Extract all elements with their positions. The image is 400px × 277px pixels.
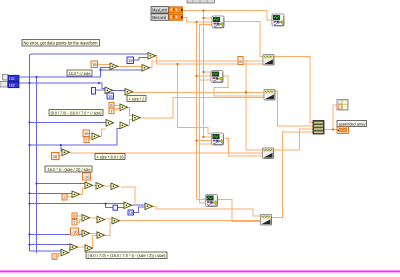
constant: orange -16 row L <box>71 228 79 235</box>
svg-text:16: 16 <box>53 154 58 159</box>
constant: orange 7 row K <box>72 220 77 226</box>
op-amp: divide J2 <box>145 203 153 210</box>
label: No error, get data points for the waveform <box>22 40 100 47</box>
node: junction dots orange <box>176 9 334 141</box>
svg-text:16.0 * i / size: 16.0 * i / size <box>69 71 92 76</box>
svg-text:MaxLimit: MaxLimit <box>152 8 168 13</box>
wire: orange build array output to appended array terminal <box>324 129 337 131</box>
wire: orange multiply to divide B <box>117 66 142 68</box>
constant: orange 8 near I3 <box>238 57 243 65</box>
svg-text:-16.0 * (i - (size / 2)) / siz: -16.0 * (i - (size / 2)) / size <box>47 167 92 172</box>
op-amp: divide T_b <box>120 122 128 129</box>
constant: blue 16 cluster B2 <box>107 93 114 99</box>
constant: orange 2 row N <box>52 254 57 259</box>
op-amp: multiply L1 <box>82 230 90 237</box>
wire: blue const 16 elbow into J2 <box>134 207 146 212</box>
op-amp: ramp VI icon I9 <box>260 214 271 225</box>
wire: blue T2 horizontal run y=84 into cluster B2 <box>19 83 105 89</box>
constant: blue 16 row J <box>128 210 134 215</box>
wire: orange H chain links <box>93 185 111 188</box>
wire: orange const 16 to multiply <box>97 64 110 66</box>
op-amp: compare G <box>62 149 70 156</box>
svg-text:16: 16 <box>108 94 113 99</box>
constant: orange 16 cluster F <box>83 130 90 137</box>
op-amp: add T_b2 <box>125 89 133 96</box>
op-amp: divide L2 <box>97 232 105 239</box>
wire: orange T_c long output via x=173 into I4 third input <box>140 97 263 118</box>
wire: magenta separator line at bottom <box>0 270 400 272</box>
wire: blue link T_a2 to T_b2 <box>112 89 125 91</box>
constant: orange 7 cluster C <box>109 108 114 114</box>
svg-text:I32: I32 <box>9 84 14 88</box>
wire: orange long run y=92.5 from T_b2 to x=246 <box>132 91 263 93</box>
op-amp: subtract N <box>61 249 69 256</box>
wire: orange consts 16 7 into F <box>89 134 92 140</box>
svg-text:16: 16 <box>92 62 97 67</box>
svg-text:16: 16 <box>128 58 133 63</box>
terminal: appended array DBL indicator <box>337 127 349 134</box>
constant: orange 8 cluster C <box>109 103 114 109</box>
op-amp: divide M2 <box>85 245 93 252</box>
op-amp: multiply K2 <box>97 216 105 223</box>
wire: blue branch y=122.5 to multiply T_a <box>30 121 107 123</box>
wire: orange vertical Va x=203.5 feeding scope icons first inputs <box>204 11 213 138</box>
wire: orange I10 output down x=250 into I4 first input <box>214 76 264 96</box>
wire: blue main vertical bus from node at (30,54) down to y=250 with top run to divide triangle A <box>30 54 149 251</box>
op-amp: ramp VI icon I3 <box>263 54 274 65</box>
svg-text:-16: -16 <box>84 175 91 180</box>
wire: orange const 2 into I <box>67 196 72 198</box>
wire: orange N output stub <box>56 254 61 257</box>
wire: orange K chain <box>77 216 112 223</box>
op-amp: scope VI icon I8 <box>205 194 217 206</box>
op-amp: scope VI icon I10 <box>211 70 223 82</box>
wire: orange J2 output long y=209 into I9 first input <box>151 206 260 215</box>
op-amp: divide triangle B <box>142 65 150 72</box>
wire: orange vertical Vc x=207 feeding scope icons third inputs <box>200 25 213 203</box>
wire: orange T_b output elbow up into T_c <box>127 120 133 126</box>
wire: orange vertical Vb x=196.5 feeding scope icons second inputs <box>197 22 212 200</box>
svg-text:I32: I32 <box>9 77 14 81</box>
U2: array constant <box>337 100 348 111</box>
wire: orange branch from (177.5,64) down into I5 fourth input <box>178 64 212 134</box>
wire: orange triangle A output long run y=64 to I3 <box>154 56 263 65</box>
label: (-8.0 / 7.0) + (16.0 / 7.0 * (i - (size / 2)) / size) <box>86 252 167 259</box>
control: partial gray box at top edge <box>187 0 215 3</box>
op-amp: multiply T_a2 <box>105 87 113 94</box>
wire: blue branch y=234.3 elbow into M1 <box>30 233 83 235</box>
svg-text:-16: -16 <box>72 230 79 235</box>
wire: orange I output up into H1 <box>80 188 85 194</box>
label: MinLimit <box>151 14 169 20</box>
svg-text:16: 16 <box>129 210 134 215</box>
wire: orange I5 output down x=228.5 into I7 second input <box>225 139 262 156</box>
op-amp: multiply J1 <box>124 202 132 209</box>
U1: build array node <box>313 121 324 135</box>
wire: orange consts 8 7 into divide <box>114 106 120 111</box>
label: (8.0 / 7.0) - (16.0 / 7.0 * i / size) <box>49 110 103 116</box>
wire: orange array constant elbow into build array top <box>333 105 337 130</box>
wire: blue long branch y=203.8 to multiply J1 <box>30 204 125 208</box>
op-amp: multiply M1 <box>70 244 78 251</box>
label: -16.0 * (i - (size / 2)) / size <box>45 166 92 172</box>
wire: orange divide (120,104) elbow down into T_c first input <box>127 108 133 116</box>
op-amp: ramp VI icon I4 <box>264 89 275 100</box>
constant: orange 8 row K <box>72 213 77 219</box>
op-amp: scope VI icon I2 <box>272 14 284 26</box>
op-amp: divide triangle A <box>148 53 156 60</box>
op-amp: scope VI icon I1 <box>212 16 224 28</box>
wire: blue branch y=152 to compare G <box>30 129 121 151</box>
label: 16.0 * i / size <box>67 70 92 76</box>
terminal: MinLimit DBL control <box>169 14 183 20</box>
svg-text:appended array: appended array <box>339 121 367 126</box>
terminal: left I32 control T1 with tiny label <box>3 75 20 82</box>
op-amp: subtract I <box>72 191 80 198</box>
wire: orange M chain <box>68 236 97 253</box>
label: appended array <box>337 121 367 127</box>
wire: orange 8 const to I3 <box>243 60 263 62</box>
wire: orange compare G long output y=155.5 into I7 third input <box>70 152 262 154</box>
svg-text:< size * 8.0 / 16: < size * 8.0 / 16 <box>97 154 125 159</box>
wire: orange I7 output up x=299.5 to build array <box>274 129 313 150</box>
op-amp: ramp VI icon I7 <box>262 148 273 159</box>
wire: blue J1 to J2 <box>131 204 146 206</box>
svg-text:16: 16 <box>84 131 89 136</box>
op-amp: divide F <box>92 133 100 140</box>
svg-text:MinLimit: MinLimit <box>152 15 167 20</box>
op-amp: scope VI icon I5 <box>211 133 223 145</box>
wire: blue branch y=193.3 to subtract I <box>30 192 74 194</box>
terminal: left I32 control T2 with tiny label <box>0 82 19 88</box>
svg-text:(8.0 / 7.0) - (16.0 / 7.0 * i: (8.0 / 7.0) - (16.0 / 7.0 * i / size) <box>51 110 103 115</box>
constant: orange 16 near A <box>91 61 98 68</box>
wire: blue vertical x=40 from triangle B down to row H <box>37 70 143 253</box>
label: + size / 2 <box>127 96 146 102</box>
wire: blue T1 horizontal run y=78.5 then up into multiply <box>19 68 110 78</box>
wire: blue narrow const to T_a2 <box>95 89 105 91</box>
terminal: MaxLimit DBL control <box>169 7 183 13</box>
wire: orange I1 output to ramp I3 <box>224 22 263 57</box>
constant: blue 16 near A <box>127 57 134 64</box>
wire: orange I4 output down x=277.5 to build array <box>275 91 313 126</box>
op-amp: divide 8/7 <box>120 104 128 111</box>
wire: orange triangle B output long run y=60.8 down x=246 to I7 <box>148 61 262 150</box>
label: MaxLimit <box>151 7 169 14</box>
wire: orange MinLimit elbow into icon I1 <box>183 18 212 22</box>
wire: orange I9 output up x=282.5 to build array <box>272 132 313 218</box>
constant: blue -16 row H <box>83 173 91 180</box>
constant: blue small row J <box>113 205 118 210</box>
wire: orange MaxLimit run to icon I2 <box>183 11 272 21</box>
wire: orange stub -16 down to H1 <box>86 180 88 184</box>
op-amp: multiply T_a <box>106 120 114 127</box>
wire: orange I3 output down x=310 to build array <box>274 57 313 123</box>
svg-text:+ size / 2: + size / 2 <box>129 96 146 101</box>
wire: orange F chain elbow up into T_a <box>100 129 106 137</box>
wire: blue branch y=250.5 to N <box>30 245 71 251</box>
wire: orange I8 output down x=232 into I9 second input <box>217 200 260 222</box>
svg-text:No error, get data points for: No error, get data points for the wavefo… <box>24 41 98 46</box>
wire: orange G const 16 input <box>59 155 62 157</box>
wire: blue const 16 elbow into A <box>133 58 148 61</box>
wire: blue 16 elbow cluster B2 <box>105 92 109 94</box>
op-amp: divide K1 <box>82 215 90 222</box>
op-amp: divide H3 <box>111 183 119 190</box>
node: junction dots blue <box>28 69 106 246</box>
wire: orange L chain <box>78 222 112 235</box>
op-amp: add K3 <box>112 217 120 224</box>
constant: orange 2 row I <box>62 194 67 200</box>
constant: orange 7 cluster F <box>84 137 89 143</box>
svg-text:(-8.0 / 7.0) + (16.0 / 7.0 * (: (-8.0 / 7.0) + (16.0 / 7.0 * (i - (size … <box>88 253 167 258</box>
wire: orange H3 output down into J1 <box>121 187 135 204</box>
label: < size * 8.0 / 16 <box>95 154 125 160</box>
op-amp: subtract T_c <box>133 115 141 122</box>
constant: blue narrow cluster B2 <box>92 88 96 95</box>
op-amp: multiply H2 <box>96 183 104 190</box>
op-amp: multiply H1 <box>85 182 93 189</box>
wire: orange K3 output y=221 into I9 third input <box>120 220 260 222</box>
wire: blue const into J1 lower input <box>118 206 125 208</box>
op-amp: multiply triangle near 16 const <box>110 63 118 70</box>
constant: orange 16 near G <box>52 153 60 160</box>
